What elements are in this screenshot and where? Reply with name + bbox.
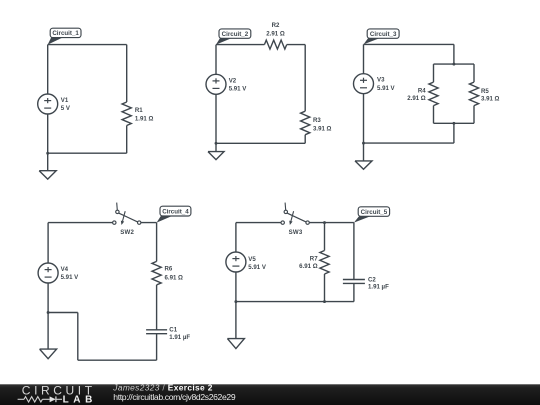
svg-text:V2: V2 — [229, 77, 237, 84]
svg-text:1.91 Ω: 1.91 Ω — [135, 115, 154, 122]
svg-text:R4: R4 — [418, 88, 426, 95]
svg-text:2.91 Ω: 2.91 Ω — [266, 30, 285, 37]
svg-text:http://circuitlab.com/cjv8d2s2: http://circuitlab.com/cjv8d2s262e29 — [113, 392, 236, 402]
svg-text:1.91 µF: 1.91 µF — [368, 284, 389, 291]
svg-text:5.91 V: 5.91 V — [229, 86, 248, 93]
svg-text:C1: C1 — [169, 326, 177, 333]
svg-text:1.91 µF: 1.91 µF — [169, 334, 190, 341]
svg-text:5.91 V: 5.91 V — [248, 264, 267, 271]
svg-text:5.91 V: 5.91 V — [61, 274, 80, 281]
svg-text:6.91 Ω: 6.91 Ω — [165, 274, 184, 281]
svg-text:5 V: 5 V — [61, 105, 71, 112]
svg-text:Circuit_2: Circuit_2 — [222, 31, 249, 38]
svg-text:3.91 Ω: 3.91 Ω — [481, 96, 500, 103]
svg-text:James2323 / Exercise 2: James2323 / Exercise 2 — [112, 382, 212, 392]
svg-text:3.91 Ω: 3.91 Ω — [313, 125, 332, 132]
svg-text:V3: V3 — [377, 77, 385, 84]
svg-text:R5: R5 — [481, 88, 489, 95]
svg-text:Circuit_1: Circuit_1 — [52, 30, 79, 37]
svg-text:R2: R2 — [272, 22, 280, 29]
svg-text:R3: R3 — [313, 117, 321, 124]
svg-text:5.91 V: 5.91 V — [377, 85, 396, 92]
svg-text:V5: V5 — [248, 256, 256, 263]
svg-text:SW3: SW3 — [289, 229, 303, 236]
svg-text:V4: V4 — [61, 266, 69, 273]
svg-text:R1: R1 — [135, 107, 143, 114]
svg-text:C2: C2 — [368, 277, 376, 284]
svg-text:V1: V1 — [61, 97, 69, 104]
svg-text:Circuit_4: Circuit_4 — [162, 209, 189, 216]
svg-text:2.91 Ω: 2.91 Ω — [407, 95, 426, 102]
svg-text:R7: R7 — [310, 256, 318, 263]
svg-text:SW2: SW2 — [120, 229, 134, 236]
svg-text:6.91 Ω: 6.91 Ω — [299, 263, 318, 270]
svg-text:LAB: LAB — [63, 395, 97, 405]
svg-text:Circuit_5: Circuit_5 — [361, 209, 388, 216]
svg-text:Circuit_3: Circuit_3 — [370, 31, 397, 38]
svg-text:R6: R6 — [165, 266, 173, 273]
